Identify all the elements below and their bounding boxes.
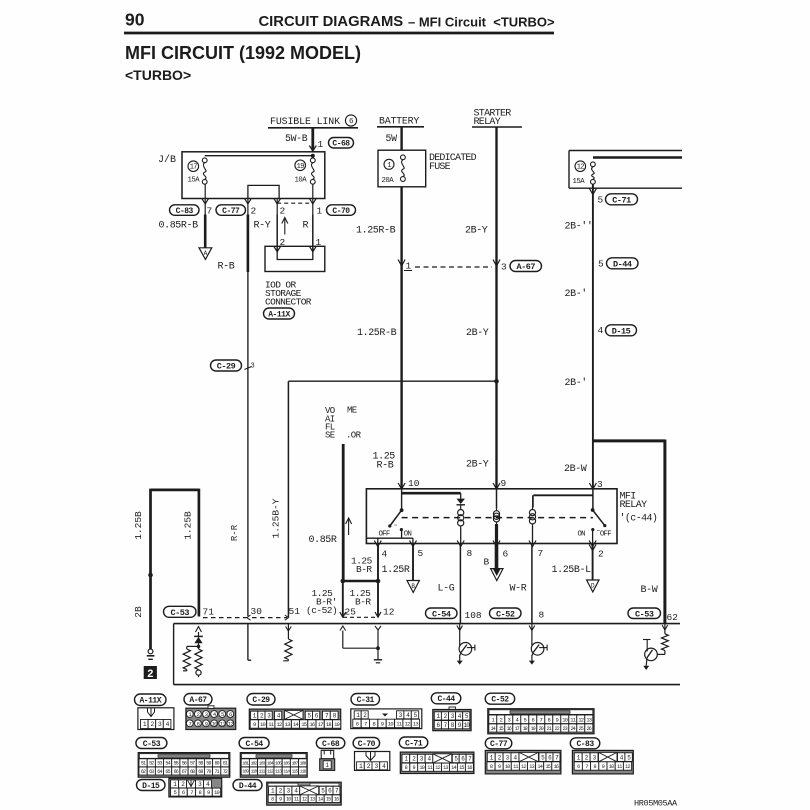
connector label D-44 <box>607 258 639 270</box>
connector label A-11X <box>264 308 295 319</box>
svg-text:108: 108 <box>300 761 307 767</box>
resistor pair <box>187 645 199 647</box>
ground offpage triangle A <box>199 248 212 260</box>
svg-text:12: 12 <box>435 765 440 771</box>
svg-text:105: 105 <box>275 761 282 767</box>
svg-text:MFI CIRCUIT (1992 MODEL): MFI CIRCUIT (1992 MODEL) <box>125 43 361 63</box>
svg-text:1.25B: 1.25B <box>133 511 144 540</box>
wire pin5 to ground B <box>412 544 414 581</box>
svg-text:R: R <box>303 221 309 232</box>
svg-text:20A: 20A <box>382 177 395 185</box>
svg-text:104: 104 <box>267 761 274 767</box>
svg-text:106: 106 <box>283 761 290 767</box>
wire pin7 W-R down <box>531 544 533 624</box>
relay switch right <box>591 508 595 512</box>
connector label A-67 <box>510 261 542 273</box>
header rule <box>124 32 554 35</box>
svg-text:1.25B-Y: 1.25B-Y <box>271 498 282 538</box>
direction arrow up <box>284 218 286 235</box>
svg-text:8: 8 <box>467 548 473 559</box>
zener diode <box>194 635 203 637</box>
svg-text:10: 10 <box>505 764 510 770</box>
svg-text:2: 2 <box>280 206 286 217</box>
ECU wires below pins 25/12 <box>340 626 346 631</box>
ECU input arrow (pin51) + resistor <box>286 627 292 632</box>
connector label C-77 <box>216 205 246 216</box>
wires R-Y and R to IOD connector <box>276 215 278 253</box>
relay pin9 wire and coil 2 <box>496 489 498 509</box>
connector label C-83 <box>570 738 600 749</box>
ECU input arrow + transistor (pin 8) <box>529 626 535 631</box>
connector label A-67 <box>184 694 212 706</box>
svg-text:2: 2 <box>598 549 604 560</box>
fusible link box top right <box>569 150 682 152</box>
svg-text:C-29: C-29 <box>217 362 236 372</box>
svg-text:10: 10 <box>212 721 218 728</box>
svg-text:4: 4 <box>598 325 604 336</box>
connector label C-68 <box>316 738 345 749</box>
svg-text:ME: ME <box>347 406 357 416</box>
connector label C-54 <box>239 738 269 749</box>
svg-text:103: 103 <box>259 761 266 767</box>
relay pin 4 <box>374 541 381 547</box>
svg-text:1: 1 <box>387 162 391 170</box>
svg-text:C-68: C-68 <box>322 740 340 749</box>
svg-text:C-52: C-52 <box>496 609 515 619</box>
svg-text:B-R: B-R <box>356 564 372 575</box>
svg-text:62: 62 <box>667 612 679 623</box>
svg-text:2B: 2B <box>133 606 144 618</box>
svg-text:3: 3 <box>597 479 603 490</box>
svg-text:2B-': 2B-' <box>565 288 587 300</box>
svg-text:D-15: D-15 <box>142 782 160 791</box>
svg-text:12: 12 <box>578 716 584 723</box>
IOD or storage connector box <box>265 246 325 271</box>
pin-30 arrow <box>247 615 251 620</box>
svg-text:– MFI Circuit <TURBO>: – MFI Circuit <TURBO> <box>408 15 555 30</box>
svg-text:C-44: C-44 <box>437 695 455 704</box>
svg-text:101: 101 <box>242 761 249 767</box>
wire pin4 down to C-31 pin 12 <box>377 544 379 618</box>
svg-text:15A: 15A <box>573 178 586 186</box>
svg-text:A-67: A-67 <box>517 262 536 272</box>
battery wire 1.25R-B <box>400 187 402 489</box>
svg-text:1.25R-B: 1.25R-B <box>357 328 397 339</box>
svg-text:14: 14 <box>537 764 542 770</box>
svg-text:10: 10 <box>214 789 220 796</box>
svg-text:R-B: R-B <box>218 262 235 273</box>
wire pin2 to ground D <box>592 544 594 581</box>
terminal circle <box>196 670 201 675</box>
svg-text:3: 3 <box>501 262 507 273</box>
svg-text:51: 51 <box>289 606 301 617</box>
connector label D-15 <box>137 780 166 791</box>
svg-text:15: 15 <box>459 765 464 771</box>
relay pin 5 <box>410 541 417 547</box>
svg-text:.OR: .OR <box>346 431 362 441</box>
connector label C-44 <box>431 693 461 704</box>
J/B internal bus wire <box>205 155 313 157</box>
svg-text:2: 2 <box>251 206 257 217</box>
svg-text:16: 16 <box>467 765 472 771</box>
svg-text:0.85R-B: 0.85R-B <box>159 221 199 232</box>
connector label C-68 <box>329 138 354 149</box>
connector label C-53 <box>164 606 197 618</box>
svg-text:C-68: C-68 <box>332 140 350 149</box>
svg-text:RELAY: RELAY <box>620 500 648 511</box>
svg-text:C-83: C-83 <box>576 740 594 749</box>
svg-text:13: 13 <box>586 716 592 723</box>
connector dashes <box>277 202 313 204</box>
svg-text:15: 15 <box>545 764 550 770</box>
svg-text:C-54: C-54 <box>432 609 451 619</box>
fuse 19 10A <box>295 158 316 185</box>
connector label C-71 <box>399 737 428 748</box>
wire 5W-B from fusible link to J/B <box>311 128 314 151</box>
svg-text:FUSE: FUSE <box>429 162 451 173</box>
svg-text:C-53: C-53 <box>143 740 161 749</box>
svg-text:9: 9 <box>501 478 507 489</box>
svg-text:C-53: C-53 <box>171 608 190 618</box>
svg-text:112: 112 <box>267 769 274 775</box>
wire R-B from J/B <box>247 198 249 214</box>
svg-text:J/B: J/B <box>158 154 176 166</box>
fuse 1 20A <box>382 155 406 185</box>
output transistor <box>645 648 658 661</box>
svg-text:13: 13 <box>285 721 291 728</box>
relay internal bus to diode <box>402 492 461 495</box>
junction node <box>311 154 315 158</box>
connector label C-31 <box>351 694 380 706</box>
branch wire 2B-W to B-W <box>593 439 665 442</box>
connector label C-77 <box>485 738 512 749</box>
svg-text:R-R: R-R <box>230 524 240 541</box>
svg-text:10: 10 <box>260 721 266 728</box>
relay internal: pin10 to switch <box>401 489 403 510</box>
ECU box left edge <box>173 624 175 685</box>
direction arrow up <box>348 519 350 535</box>
svg-text:B: B <box>484 557 490 568</box>
svg-text:7: 7 <box>538 548 544 559</box>
wire pin30 inside ECU <box>247 624 249 661</box>
svg-text:FUSIBLE LINK: FUSIBLE LINK <box>270 116 340 127</box>
svg-text:12: 12 <box>276 721 282 728</box>
ECU input arrow + transistor (pin 108) <box>457 626 463 631</box>
svg-text:18: 18 <box>326 721 332 728</box>
wire R-B / R-R long vertical <box>247 215 250 273</box>
svg-text:1.25B: 1.25B <box>183 511 194 540</box>
svg-text:30: 30 <box>251 606 263 617</box>
svg-text:16: 16 <box>554 764 559 770</box>
ECU input arrow (pin71) <box>196 627 202 633</box>
connector label C-52 <box>490 608 522 619</box>
svg-text:5: 5 <box>598 195 604 206</box>
svg-text:5: 5 <box>418 548 424 559</box>
svg-text:12: 12 <box>405 720 411 727</box>
svg-text:16: 16 <box>309 721 315 728</box>
wire 1.25B-Y down <box>287 381 289 617</box>
svg-text:1: 1 <box>325 762 329 769</box>
wire to C-83 <box>204 184 206 214</box>
svg-text:8: 8 <box>539 610 545 621</box>
dashed connector line <box>343 616 377 618</box>
svg-text:C-70: C-70 <box>332 207 350 216</box>
connector label C-54 <box>426 608 458 619</box>
svg-text:C-77: C-77 <box>222 207 240 216</box>
dashed connector line <box>203 617 247 619</box>
relay switch-left output bar <box>366 537 413 539</box>
wire R-Y from J/B <box>276 198 278 214</box>
svg-text:HR05M05AA: HR05M05AA <box>634 799 678 809</box>
svg-text:L-G: L-G <box>438 584 455 595</box>
svg-text:10: 10 <box>408 478 420 489</box>
svg-text:A-67: A-67 <box>189 696 207 705</box>
connector label A-11X <box>135 694 167 706</box>
connector label C-53 <box>628 608 661 619</box>
svg-text:A-11X: A-11X <box>268 310 290 319</box>
internal ground <box>374 659 382 661</box>
svg-text:2B-Y: 2B-Y <box>466 328 489 339</box>
svg-text:12: 12 <box>521 764 526 770</box>
svg-text:12: 12 <box>228 721 234 728</box>
starter relay wire 2B-Y <box>495 127 497 489</box>
svg-text:5W-B: 5W-B <box>285 133 308 144</box>
connector label C-29 <box>211 360 242 372</box>
svg-text:10A: 10A <box>295 177 308 185</box>
svg-text:(c-52): (c-52) <box>306 605 337 616</box>
connector label C-53 <box>136 738 167 749</box>
relay pin 2 <box>589 541 596 547</box>
wire R from J/B <box>312 184 314 214</box>
connector label C-52 <box>485 693 515 704</box>
svg-text:2B-Y: 2B-Y <box>465 226 488 237</box>
MFI relay box C-44 <box>366 489 617 544</box>
svg-text:116: 116 <box>300 769 307 775</box>
relay pin 6 <box>493 541 500 547</box>
svg-text:13: 13 <box>413 720 419 727</box>
connector label C-29 <box>247 694 275 706</box>
svg-text:˜OFF: ˜OFF <box>596 530 611 538</box>
relay mechanical dashed link <box>402 517 593 519</box>
svg-text:109: 109 <box>242 769 249 775</box>
svg-text:D-44: D-44 <box>613 259 632 269</box>
svg-text:2B-'': 2B-'' <box>565 221 593 233</box>
wire pin8 L-G down <box>459 544 461 624</box>
svg-text:W-R: W-R <box>510 584 527 595</box>
relay coil 3 <box>532 508 534 510</box>
svg-text:14: 14 <box>451 765 456 771</box>
svg-text:1.25B-L: 1.25B-L <box>552 565 592 576</box>
svg-text:OFF: OFF <box>379 530 390 538</box>
svg-text:C-53: C-53 <box>635 609 654 619</box>
svg-text:2: 2 <box>147 669 154 681</box>
svg-text:D: D <box>591 582 595 589</box>
svg-text:C-71: C-71 <box>405 739 423 748</box>
svg-text:11: 11 <box>617 764 622 770</box>
svg-text:11: 11 <box>427 765 432 771</box>
svg-text:D-15: D-15 <box>612 326 631 336</box>
svg-text:13: 13 <box>529 764 534 770</box>
svg-text:5W: 5W <box>386 133 398 144</box>
IOD internal jumper <box>277 252 313 260</box>
wire 1.25B bridge <box>151 489 199 492</box>
junction nodes and link 0.85R to pin4 wire <box>342 580 378 582</box>
connector label C-70 <box>327 205 356 216</box>
svg-text:C-83: C-83 <box>176 207 194 216</box>
svg-text:114: 114 <box>283 769 290 775</box>
svg-text:0.85R: 0.85R <box>309 535 337 546</box>
relay internal wire to coil 3 <box>533 494 593 496</box>
relay diode <box>457 499 466 504</box>
svg-text:ON: ON <box>578 530 586 538</box>
ECU box bottom <box>174 684 680 686</box>
connector label D-15 <box>606 325 637 337</box>
svg-text:2B-W: 2B-W <box>564 464 587 475</box>
connector label C-83 <box>170 205 200 216</box>
svg-text:R-B: R-B <box>377 461 394 472</box>
battery wire down <box>400 127 402 150</box>
relay pin3 wire <box>592 489 594 510</box>
junction node <box>494 379 499 384</box>
svg-text:D-44: D-44 <box>239 782 257 791</box>
svg-text:7: 7 <box>207 206 213 217</box>
svg-text:12: 12 <box>577 164 585 172</box>
svg-text:R-Y: R-Y <box>254 221 271 232</box>
relay switch left <box>400 508 404 512</box>
relay pin 8 <box>457 541 464 547</box>
svg-text:2B-': 2B-' <box>565 377 587 389</box>
svg-text:17: 17 <box>318 721 324 728</box>
svg-text:111: 111 <box>259 769 266 775</box>
branch wire to 1.25B-Y <box>288 380 496 382</box>
svg-text:17: 17 <box>190 164 198 172</box>
fuse 17 15A <box>188 158 208 185</box>
svg-text:B: B <box>411 583 415 590</box>
svg-text:SE: SE <box>325 431 335 441</box>
svg-text:A: A <box>204 250 208 257</box>
dedicated fuse box <box>378 150 426 187</box>
svg-text:1.25R: 1.25R <box>382 565 410 576</box>
svg-text:12: 12 <box>625 764 630 770</box>
svg-text:10: 10 <box>419 765 424 771</box>
svg-text:113: 113 <box>275 769 282 775</box>
svg-text:C-70: C-70 <box>358 740 376 749</box>
svg-text:10: 10 <box>388 720 394 727</box>
svg-text:B-R: B-R <box>355 597 371 608</box>
svg-text:10: 10 <box>562 716 568 723</box>
svg-text:71: 71 <box>203 607 215 618</box>
svg-text:C-71: C-71 <box>612 195 631 205</box>
svg-text:12: 12 <box>383 607 395 618</box>
svg-text:90: 90 <box>125 10 145 30</box>
svg-text:1: 1 <box>317 206 323 217</box>
svg-text:2B-Y: 2B-Y <box>466 460 489 471</box>
wire 0.85R down to C-31 pin 25 <box>342 581 344 617</box>
svg-text:<TURBO>: <TURBO> <box>125 67 191 83</box>
J/B internal bracket bus <box>248 185 279 198</box>
svg-text:CIRCUIT DIAGRAMS: CIRCUIT DIAGRAMS <box>259 14 404 30</box>
relay pin 7 <box>529 541 536 547</box>
svg-text:15: 15 <box>301 721 307 728</box>
svg-text:108: 108 <box>465 610 482 621</box>
svg-text:A-11X: A-11X <box>139 697 161 706</box>
svg-text:13: 13 <box>443 765 448 771</box>
ECU box top bus <box>174 623 680 625</box>
connector label C-70 <box>353 738 380 749</box>
svg-text:25: 25 <box>345 607 357 618</box>
svg-text:'(c-44): '(c-44) <box>620 513 658 525</box>
svg-text:5: 5 <box>598 259 604 270</box>
svg-text:1: 1 <box>318 139 324 150</box>
svg-text:C-31: C-31 <box>357 696 375 705</box>
svg-text:19: 19 <box>334 721 340 728</box>
svg-text:6: 6 <box>503 549 509 560</box>
sheet marker 2 <box>144 666 157 679</box>
wire from fuse 12 <box>592 184 594 489</box>
svg-text:4: 4 <box>382 549 388 560</box>
connector label D-44 <box>233 780 262 791</box>
svg-text:˜: ˜ <box>394 525 398 533</box>
wire 0.85R <box>342 444 345 581</box>
relay coil 1 <box>460 508 462 510</box>
pin-51 arrow <box>285 615 289 620</box>
svg-text:C-54: C-54 <box>245 740 263 749</box>
wire pin6 bold to ground B <box>495 544 499 573</box>
svg-text:BATTERY: BATTERY <box>379 116 419 127</box>
svg-text:1.25R-B: 1.25R-B <box>356 226 396 237</box>
svg-text:15A: 15A <box>188 177 201 185</box>
svg-text:B-W: B-W <box>641 585 658 596</box>
wire 0.85R-B down <box>204 215 207 248</box>
connector label C-71 <box>606 194 638 206</box>
svg-text:11: 11 <box>513 764 518 770</box>
svg-text:19: 19 <box>297 163 305 171</box>
fuse 12 15A <box>573 161 596 186</box>
svg-text:C-52: C-52 <box>491 696 509 705</box>
chassis ground <box>148 649 153 654</box>
svg-text:CONNECTOR: CONNECTOR <box>265 297 312 308</box>
svg-text:ON: ON <box>404 530 412 538</box>
svg-text:1: 1 <box>406 261 412 272</box>
dashed connector link <box>415 266 492 268</box>
svg-text:10: 10 <box>609 764 614 770</box>
svg-text:C-77: C-77 <box>490 740 508 749</box>
ECU input arrow + resistor + transistor (pin 62) <box>662 625 668 630</box>
svg-text:C-29: C-29 <box>252 696 270 705</box>
